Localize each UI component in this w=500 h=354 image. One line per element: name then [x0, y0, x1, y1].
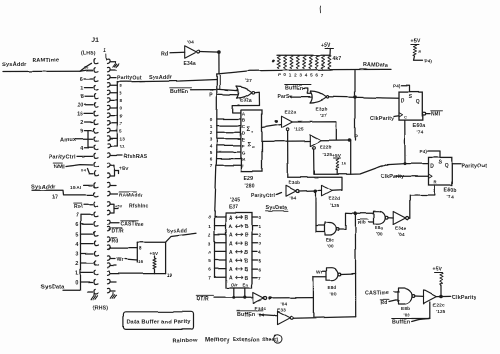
svg-text:B: B [245, 216, 249, 222]
svg-text:3: 3 [120, 91, 123, 96]
svg-text:5: 5 [75, 232, 78, 238]
svg-text:1: 1 [75, 271, 78, 277]
svg-text:5: 5 [210, 150, 213, 155]
svg-text:ClkParity: ClkParity [381, 174, 404, 180]
svg-text:A: A [229, 250, 233, 256]
svg-text:0: 0 [75, 281, 78, 287]
svg-text:B: B [245, 267, 249, 273]
wire SysAddr/RAMTime to J1 pins [3, 63, 93, 71]
wire NMI to J1 [66, 165, 93, 174]
pin Rst stub [74, 203, 93, 210]
net BuffEn label (E22c) [392, 319, 430, 326]
page mark top [319, 6, 322, 13]
pull-up resistor P4 (top right) [411, 39, 433, 64]
svg-text:8: 8 [120, 99, 123, 104]
svg-text:RAMData: RAMData [363, 63, 389, 69]
svg-text:4k7: 4k7 [333, 56, 342, 62]
svg-text:'04: '04 [398, 232, 405, 237]
svg-text:B: B [245, 233, 249, 239]
ground J1 right top [110, 62, 119, 67]
svg-text:E8d: E8d [328, 285, 337, 290]
nand E8d '00 [327, 268, 341, 297]
net DT/R label (bottom) [196, 296, 213, 303]
svg-text:CASTime: CASTime [121, 222, 144, 228]
svg-text:'00: '00 [330, 292, 337, 297]
svg-text:3: 3 [259, 241, 262, 246]
wire ParityCtrl to J1 [77, 155, 93, 157]
svg-text:2: 2 [259, 232, 262, 237]
net ClkParity label (E60a) [371, 116, 394, 122]
svg-text:Wr: Wr [117, 257, 124, 263]
wire E8d output to bus [341, 273, 356, 276]
svg-text:16: 16 [77, 112, 83, 118]
wire E22c output to ClkParity [436, 295, 451, 298]
svg-text:SysAddr: SysAddr [31, 185, 56, 191]
title box Data Buffer and Parity [123, 312, 193, 330]
IC E37 74LS245 transceiver [226, 198, 252, 289]
svg-text:B: B [245, 250, 249, 256]
svg-text:D: D [430, 164, 434, 170]
svg-text:P: P [278, 73, 281, 78]
svg-text:B: B [245, 224, 249, 230]
net BuffEn label (at P) [170, 88, 192, 95]
svg-text:BuffEn: BuffEn [392, 320, 410, 326]
wire Amux to J1 [75, 131, 93, 148]
svg-text:B: B [242, 117, 246, 122]
svg-text:Q: Q [416, 99, 420, 105]
svg-text:8: 8 [80, 94, 83, 100]
svg-text:10/AI: 10/AI [70, 185, 82, 190]
net ClkParity label (E60b) [381, 174, 404, 180]
net SysData label (left) [41, 285, 65, 291]
svg-text:+5V: +5V [411, 39, 421, 45]
svg-text:P4): P4) [425, 59, 433, 64]
svg-text:C: C [404, 115, 407, 120]
net ParityCtrl label (E37 top) [252, 193, 282, 199]
connector J1 left column contacts [94, 59, 98, 294]
svg-text:7: 7 [210, 163, 213, 168]
svg-text:4: 4 [259, 250, 262, 255]
svg-text:NMI: NMI [54, 165, 65, 171]
svg-text:Rd: Rd [112, 239, 119, 245]
svg-text:4: 4 [75, 242, 78, 248]
svg-text:ClkParity: ClkParity [371, 116, 394, 122]
svg-text:6: 6 [75, 222, 78, 228]
wire P to E32a inputs [217, 89, 238, 95]
net Rd label (bottom) [380, 300, 389, 307]
wire E60b R reset path [410, 185, 435, 218]
pull-up network box (J1 right) [110, 242, 172, 277]
svg-text:1: 1 [289, 73, 292, 78]
node P (parity net) [355, 135, 359, 141]
wire E22b enable down [313, 149, 315, 174]
svg-text:NMI: NMI [431, 112, 441, 118]
svg-text:11: 11 [120, 144, 125, 149]
net BuffEn label (E33) [237, 311, 263, 318]
svg-text:'125: '125 [436, 309, 446, 314]
inverter E34b [286, 180, 300, 201]
wire E8c output up to E8a input [339, 213, 355, 229]
svg-text:7: 7 [208, 275, 211, 280]
value 4k7 [333, 56, 342, 62]
svg-text:9: 9 [120, 114, 123, 119]
net SysAddr label (J1 right) [149, 75, 173, 81]
svg-text:S: S [409, 95, 413, 101]
tri-state buffer E22b '125 [310, 135, 333, 158]
net RAMTime label [32, 58, 59, 64]
svg-text:R: R [419, 50, 422, 54]
svg-text:E8b: E8b [401, 306, 410, 312]
wire E34e output to E60b reset [409, 217, 410, 219]
svg-text:1: 1 [210, 124, 213, 129]
svg-text:E34e: E34e [395, 226, 407, 231]
ground J1 right bottom [110, 291, 116, 298]
svg-text:E22b: E22b [320, 145, 332, 151]
IC E29 74S280 parity generator [241, 110, 262, 190]
wire E22d output to E22a enable [288, 177, 342, 190]
wire SysAddr pin bus (right column) [110, 82, 125, 150]
svg-text:DT/R: DT/R [112, 229, 125, 235]
or-gate E32b '27 [311, 91, 329, 119]
svg-text:5: 5 [120, 83, 123, 88]
wire Rd to E34a [170, 51, 185, 54]
pin stub r265 [110, 265, 116, 267]
connector J1 title [81, 37, 107, 60]
wire P4 to E60b S [420, 149, 441, 158]
pin stub r185 [110, 184, 116, 186]
svg-text:16: 16 [138, 259, 144, 264]
svg-text:SysAddr: SysAddr [149, 75, 173, 81]
net Rib label [358, 219, 374, 224]
svg-text:2: 2 [294, 73, 297, 78]
svg-text:RfshRAS: RfshRAS [124, 154, 147, 160]
svg-text:9: 9 [80, 129, 83, 135]
svg-text:5: 5 [259, 258, 262, 263]
svg-text:S: S [438, 160, 442, 166]
net SysData label (E37) [265, 206, 288, 212]
svg-text:D: D [242, 131, 246, 136]
wire Wr to E8d [323, 270, 327, 272]
svg-text:CASTime: CASTime [365, 291, 390, 297]
svg-text:'04: '04 [187, 40, 194, 46]
wire BuffEn to E32b [304, 88, 312, 93]
wire CASTime to E8b [395, 291, 400, 293]
wire BuffEn to P node [191, 89, 216, 91]
svg-text:3: 3 [75, 252, 78, 258]
svg-text:E29: E29 [244, 176, 254, 182]
left pin numbers 6,1,8,10,16,2,9,4 with stubs [77, 77, 93, 152]
wire E37 B side to SysData [252, 215, 262, 280]
svg-text:2: 2 [75, 261, 78, 267]
svg-text:(RHS): (RHS) [93, 306, 108, 312]
svg-text:En: En [243, 283, 249, 288]
net BuffEn label (E32b) [285, 85, 311, 92]
svg-text:5: 5 [208, 258, 211, 263]
connector J1 (RHS) label [93, 306, 108, 312]
svg-text:Memory: Memory [205, 337, 230, 344]
svg-text:ClkParity: ClkParity [452, 295, 477, 301]
flip-flop E60a '74 [399, 92, 425, 135]
svg-text:1: 1 [104, 48, 107, 54]
wire RAMData bus [217, 69, 391, 74]
wire E32a output loop to E29 input A [232, 92, 259, 113]
net NMI label (left) [54, 163, 65, 170]
net Rd label (top) [161, 51, 168, 57]
inverter E34c [253, 293, 266, 318]
svg-text:5: 5 [120, 129, 123, 134]
net ParityOut label (right) [462, 164, 487, 170]
svg-text:6: 6 [80, 77, 83, 83]
wire E60a R down [404, 120, 406, 165]
svg-text:'74: '74 [417, 130, 424, 136]
svg-text:1k: 1k [342, 161, 347, 166]
svg-text:SysAdd: SysAdd [167, 229, 187, 235]
svg-text:R: R [434, 180, 437, 185]
svg-text:6: 6 [259, 267, 262, 272]
svg-text:F: F [242, 144, 245, 149]
tri-state buffer E22a '125 [282, 110, 304, 133]
svg-text:Rainbow: Rainbow [172, 338, 198, 344]
svg-text:RAMTime: RAMTime [32, 58, 59, 64]
svg-text:A: A [242, 111, 246, 116]
resistor pack 4k7 to +5V [273, 49, 331, 69]
svg-text:Dir: Dir [231, 283, 237, 288]
wire E8a to E34e [388, 217, 393, 219]
svg-text:19: 19 [167, 273, 173, 278]
svg-text:E37: E37 [229, 205, 239, 211]
pin Wr [110, 257, 137, 263]
svg-text:2: 2 [208, 232, 211, 237]
svg-text:P: P [209, 92, 213, 98]
svg-text:P4): P4) [393, 84, 401, 89]
wire P4 to E60a S [393, 84, 410, 93]
svg-text:10: 10 [77, 103, 83, 109]
svg-text:7: 7 [259, 275, 262, 280]
wire P down to D-line [350, 141, 352, 175]
wire E34b junction down to E8c [316, 192, 325, 232]
svg-text:SysAddr: SysAddr [2, 62, 27, 68]
wire E60a Qbar to NMI [422, 111, 442, 118]
svg-text:E8c: E8c [326, 238, 335, 243]
resistor pack pin labels P0-7 [278, 73, 324, 78]
svg-text:3: 3 [299, 73, 302, 78]
wire E33 output to bus [293, 317, 355, 319]
wire E32b output to E60a D [329, 97, 399, 98]
wire E22c enable from BuffEn [412, 302, 430, 319]
pin Rd [110, 238, 119, 245]
svg-text:7: 7 [120, 121, 123, 126]
pin RfshInc pair [110, 204, 148, 214]
svg-text:6: 6 [315, 73, 318, 78]
wire E29 So to E22b [262, 140, 310, 142]
wire E34c output to riser [269, 297, 314, 299]
svg-text:I: I [242, 164, 243, 169]
wire SysAddr 17 to J1 [32, 190, 93, 200]
wire RAMData bits to E37 A side [208, 150, 226, 280]
svg-text:'00: '00 [377, 232, 384, 237]
svg-text:ParityOut: ParityOut [462, 164, 487, 170]
svg-text:+5V: +5V [433, 267, 443, 273]
connector J1 right column contacts [108, 59, 111, 293]
net ParityOut label [110, 76, 142, 82]
svg-text:7: 7 [321, 73, 324, 78]
wire vertical bus (E33/E8d to E8a) [354, 213, 356, 317]
svg-text:H: H [242, 157, 246, 162]
pin RAMAddr [110, 192, 142, 199]
wire ClkParity to E60a clock [394, 114, 400, 117]
svg-text:BuffEn: BuffEn [170, 89, 188, 95]
svg-text:E32b: E32b [316, 107, 328, 113]
svg-text:J1: J1 [92, 37, 100, 44]
svg-text:'00: '00 [403, 313, 410, 318]
svg-text:'27: '27 [245, 78, 252, 84]
svg-text:'04: '04 [281, 302, 288, 307]
wire E29 Se to E22a [262, 121, 282, 128]
svg-text:4: 4 [210, 143, 213, 148]
svg-text:3: 3 [208, 241, 211, 246]
svg-text:+5V: +5V [115, 205, 123, 209]
svg-text:A: A [229, 267, 233, 273]
svg-text:+5V: +5V [120, 166, 130, 172]
svg-text:A: A [229, 241, 233, 247]
svg-text:'125: '125 [294, 127, 304, 133]
svg-text:Wr: Wr [316, 269, 323, 275]
svg-text:'27: '27 [320, 113, 327, 119]
net Wr label (E8d) [316, 269, 323, 275]
wire E22a enable down [287, 131, 289, 178]
svg-text:'280: '280 [245, 184, 255, 190]
svg-text:SysData: SysData [265, 206, 288, 212]
node P (bus tap) [209, 74, 220, 150]
svg-text:2: 2 [210, 130, 213, 135]
tri-state buffer E22d '125 [322, 185, 340, 208]
wire SysData bus (left) [63, 213, 93, 290]
svg-text:Rd: Rd [381, 301, 388, 307]
net SysAddr (top left label) [2, 62, 27, 68]
wire parity line to E60b D [314, 164, 429, 175]
net SysAddr (second, left) [31, 185, 56, 191]
net ParSv label [278, 94, 293, 100]
svg-text:Rst: Rst [74, 204, 83, 210]
svg-text:0: 0 [120, 106, 123, 111]
wire ClkParity to E60b clock [396, 175, 429, 177]
svg-text:E22a: E22a [285, 110, 297, 116]
svg-text:E22c: E22c [433, 303, 445, 309]
svg-text:RAMAddr: RAMAddr [120, 193, 143, 199]
svg-text:1: 1 [208, 224, 211, 229]
svg-text:16: 16 [84, 66, 89, 70]
svg-text:Rd: Rd [161, 51, 168, 57]
svg-text:'00: '00 [327, 244, 334, 249]
wire E60b Q to ParityOut [452, 163, 461, 165]
svg-text:BuffEn: BuffEn [285, 86, 303, 92]
svg-text:Extension: Extension [233, 337, 259, 343]
flip-flop E60b '74 [429, 157, 457, 200]
svg-text:'04: '04 [290, 196, 297, 201]
pin RfshRAS [110, 154, 147, 160]
svg-text:DT/R: DT/R [197, 297, 210, 303]
nand E8a '00 [374, 211, 389, 236]
svg-text:'125: '125 [323, 152, 333, 158]
svg-text:0: 0 [210, 117, 213, 122]
svg-text:ParityCtrl: ParityCtrl [252, 193, 276, 199]
svg-text:0: 0 [259, 215, 262, 220]
svg-text:E60b: E60b [444, 188, 457, 194]
net ParityCtrl label (left) [49, 155, 76, 161]
or-gate E32a '27 [237, 78, 255, 104]
svg-text:Σ: Σ [247, 127, 251, 133]
inverter E33 [277, 302, 293, 326]
svg-text:E22d: E22d [329, 196, 341, 201]
svg-text:'125: '125 [330, 203, 340, 208]
svg-text:E8a: E8a [375, 226, 384, 231]
svg-text:Data Buffer and Parity: Data Buffer and Parity [127, 320, 192, 326]
wire E22b output to P junction [321, 139, 351, 142]
pin 10/AI stub [70, 185, 93, 190]
svg-text:A: A [229, 276, 233, 282]
svg-text:B: B [245, 276, 249, 282]
wire E8b to E22c [415, 295, 424, 297]
net CASTime label [365, 291, 390, 297]
ground J1 left bottom [88, 292, 98, 299]
svg-text:P4): P4) [420, 149, 428, 154]
svg-text:(LHS): (LHS) [81, 51, 96, 57]
wire DT/R to E37 Dir/En [214, 288, 253, 299]
inverter E34e [393, 212, 408, 238]
pull-up +5V (ClkParity) [433, 267, 443, 297]
svg-text:'74: '74 [447, 194, 454, 200]
tri-state buffer E22c '125 [424, 290, 446, 314]
wire SysAdd out of pull-up box [166, 229, 196, 243]
svg-text:E34b: E34b [289, 180, 301, 185]
pin CASTime [110, 221, 143, 228]
wire E22a output to P junction [292, 122, 336, 141]
pull-up +5V at P line [332, 153, 347, 174]
wire ParSv to E32b [290, 96, 312, 98]
svg-text:3: 3 [210, 137, 213, 142]
svg-text:BuffEn: BuffEn [237, 312, 255, 318]
svg-text:0: 0 [208, 215, 211, 220]
svg-text:6: 6 [210, 157, 213, 162]
svg-text:'245: '245 [230, 198, 240, 204]
svg-text:B: B [245, 259, 249, 265]
svg-text:5: 5 [310, 73, 313, 78]
svg-text:1: 1 [276, 337, 279, 343]
svg-text:A: A [229, 259, 233, 265]
svg-text:Σ: Σ [248, 142, 252, 148]
net RAMData label [363, 63, 389, 69]
svg-text:Q: Q [444, 163, 448, 169]
wire E34b output junction [299, 190, 322, 193]
svg-text:A: A [229, 224, 233, 230]
wire riser to E8d input [313, 277, 326, 317]
svg-text:ParityCtrl: ParityCtrl [49, 155, 76, 161]
svg-text:o: o [252, 144, 255, 149]
svg-text:A: A [229, 233, 233, 239]
pin stub right row2 [110, 69, 116, 71]
svg-text:17: 17 [52, 195, 58, 201]
svg-text:4: 4 [305, 73, 308, 78]
svg-text:C: C [242, 124, 246, 129]
svg-text:+5V: +5V [150, 251, 160, 256]
svg-text:1: 1 [80, 86, 83, 92]
svg-text:E60a: E60a [413, 123, 425, 129]
svg-text:8: 8 [139, 246, 142, 251]
svg-text:13: 13 [120, 137, 126, 142]
svg-text:Rib: Rib [358, 220, 366, 225]
pin +5V pair [110, 166, 129, 176]
svg-text:2: 2 [80, 120, 83, 126]
